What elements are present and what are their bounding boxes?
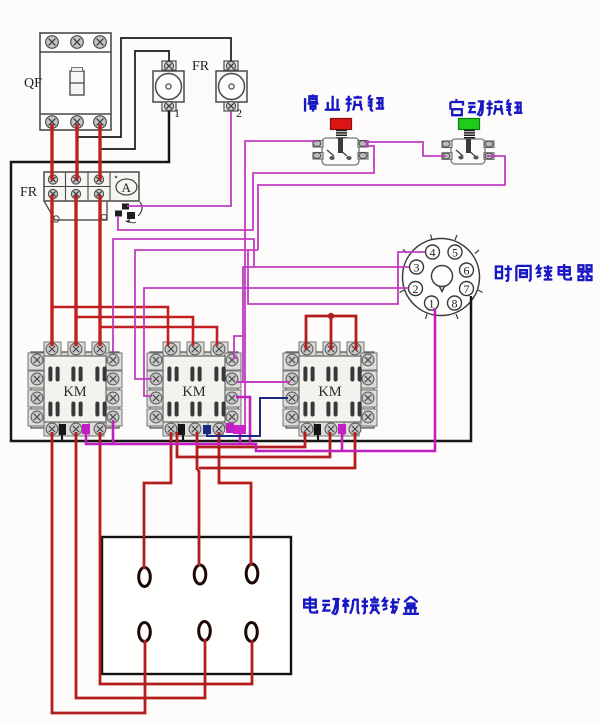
wire red KM2 bottom5 to motor box upper terminal 3 (219, 432, 251, 566)
wire red KM3 star bridge bar (306, 316, 356, 350)
socket pin 2 (409, 282, 423, 296)
socket pin 4 (426, 245, 440, 259)
wire red QF L1 to FR thermal input 1 (50, 124, 53, 180)
contactor KM2 navy bottom post (203, 425, 211, 434)
wire red bus KM3 bottom3 to motor feed (199, 432, 355, 468)
wire black fuse2-top to QF mid pole (77, 38, 231, 137)
socket pin 1 (425, 296, 439, 310)
contactor KM1 (28, 342, 122, 436)
svg-text:QF: QF (24, 76, 42, 91)
svg-text:8: 8 (452, 297, 458, 311)
wire black fuse1-top to QF right pole (100, 51, 169, 149)
svg-text:A: A (122, 180, 132, 195)
socket pin 6 (460, 263, 474, 277)
wire red KM2 bottom3 to motor box upper terminal 2 (197, 432, 199, 566)
contactor KM2 magenta bottom post (226, 423, 234, 433)
wire black KM2 bottom post riser (182, 432, 184, 441)
wire red KM1 bottom1 to motor box lower terminal 1 (52, 432, 145, 713)
wire black KM3 bottom post riser (317, 432, 319, 441)
wire red FR output 3 down to KM1 top 3 (98, 195, 101, 346)
motor terminal box (102, 537, 291, 674)
svg-text:2: 2 (236, 106, 242, 120)
wire red FR output 2 down to KM1 top 2 (74, 195, 77, 346)
label stop button text 停止按钮 (305, 95, 384, 112)
time relay octal socket (400, 235, 483, 320)
wire red QF L3 to FR thermal input 3 (98, 124, 101, 180)
wire black fuse1-bottom frame bus to KM posts and relay pin 7 (11, 111, 471, 441)
wire magenta FR aux NC output to stop button right lower (118, 146, 374, 230)
svg-text:2: 2 (413, 282, 419, 296)
wire magenta stop button left down between contactors (245, 141, 317, 426)
label time relay text 时间继电器 (496, 264, 593, 281)
svg-text:1: 1 (429, 297, 435, 311)
wire magenta fuse2-bottom to FR aux NC input (127, 111, 231, 206)
wire magenta stop button right upper to start button lower left (364, 142, 446, 156)
label motor terminal box text 电动机接线盒 (304, 597, 419, 614)
contactor KM3 (283, 342, 377, 436)
wire red jumper KM1 top3 to KM2 top3 (100, 327, 217, 346)
svg-text:FR: FR (192, 59, 210, 74)
junction dot KM3 star bar (328, 313, 334, 319)
contactor KM2 (147, 342, 241, 436)
svg-text:5: 5 (452, 246, 458, 260)
start button (green) (442, 119, 494, 165)
wire red bus KM3 bottom2 to KM2 bottom (177, 432, 330, 457)
wire red QF L2 to FR thermal input 2 (75, 124, 78, 180)
wire magenta KM2 right side 2 to KM3 left side 2 (236, 381, 290, 383)
wire black KM1 bottom post riser (61, 432, 63, 441)
svg-text:FR: FR (20, 185, 38, 200)
thermal overload relay FR (44, 172, 139, 222)
wire magenta KM1 right side 1 to relay pin 3 line (113, 239, 254, 352)
svg-text:3: 3 (414, 261, 420, 275)
wire red KM1 bottom2 to motor box lower terminal 2 (76, 432, 205, 698)
wire magenta coil node riser to relay pin 4 (248, 250, 425, 304)
stop button (red) (313, 119, 368, 166)
KM2 bottom right magenta block (233, 425, 246, 434)
svg-text:6: 6 (464, 264, 470, 278)
svg-text:7: 7 (464, 282, 470, 296)
label start button text 启动按钮 (450, 99, 522, 115)
wire magenta stub to KM2 right side 1 (holding contact) (234, 336, 245, 358)
wire red KM2 bottom1 to motor box upper terminal 1 (144, 432, 171, 569)
wire magenta bold KM2 right side 3 to coil return bus (236, 397, 250, 445)
wire magenta start button lower right to coil node (258, 156, 505, 250)
wire magenta coil node to KM2 left side 2 (135, 250, 258, 379)
fuse FR 1 (153, 61, 184, 111)
svg-text:1: 1 (174, 106, 180, 120)
thermal relay FR auxiliary contact screws (115, 202, 142, 223)
wire magenta relay pin 3 down to holding line (243, 267, 409, 382)
svg-text:4: 4 (430, 246, 436, 260)
socket pin 3 (410, 260, 424, 274)
socket pin 8 (448, 296, 462, 310)
wire red KM1 bottom3 to motor box lower terminal 3 (100, 432, 252, 684)
fuse FR 2 (216, 61, 247, 111)
wire magenta bold KM1 right side 4 drop to coil return bus (112, 420, 115, 443)
wire red jumper KM1 top2 to KM2 top2 (77, 317, 193, 346)
circuit breaker QF (40, 33, 111, 130)
wire magenta bold coil return bus KM1 KM2 KM3 to relay pin 1 (86, 308, 435, 451)
wire magenta relay pin 2 to KM2 left side 3 (144, 288, 408, 396)
socket pin 5 (448, 245, 462, 259)
wire red FR output 1 down to KM1 top 1 (50, 195, 53, 346)
contactor KM3 magenta bottom post (338, 424, 346, 434)
wire navy KM2 bottom4 to KM3 left side 3 (207, 398, 288, 436)
socket pin 7 (460, 282, 474, 296)
wire red jumper KM1 top1 to KM2 top1 (52, 307, 168, 346)
wire red bus KM3 bottom1 to motor feed (198, 432, 305, 447)
contactor KM1 magenta bottom post (82, 424, 90, 434)
